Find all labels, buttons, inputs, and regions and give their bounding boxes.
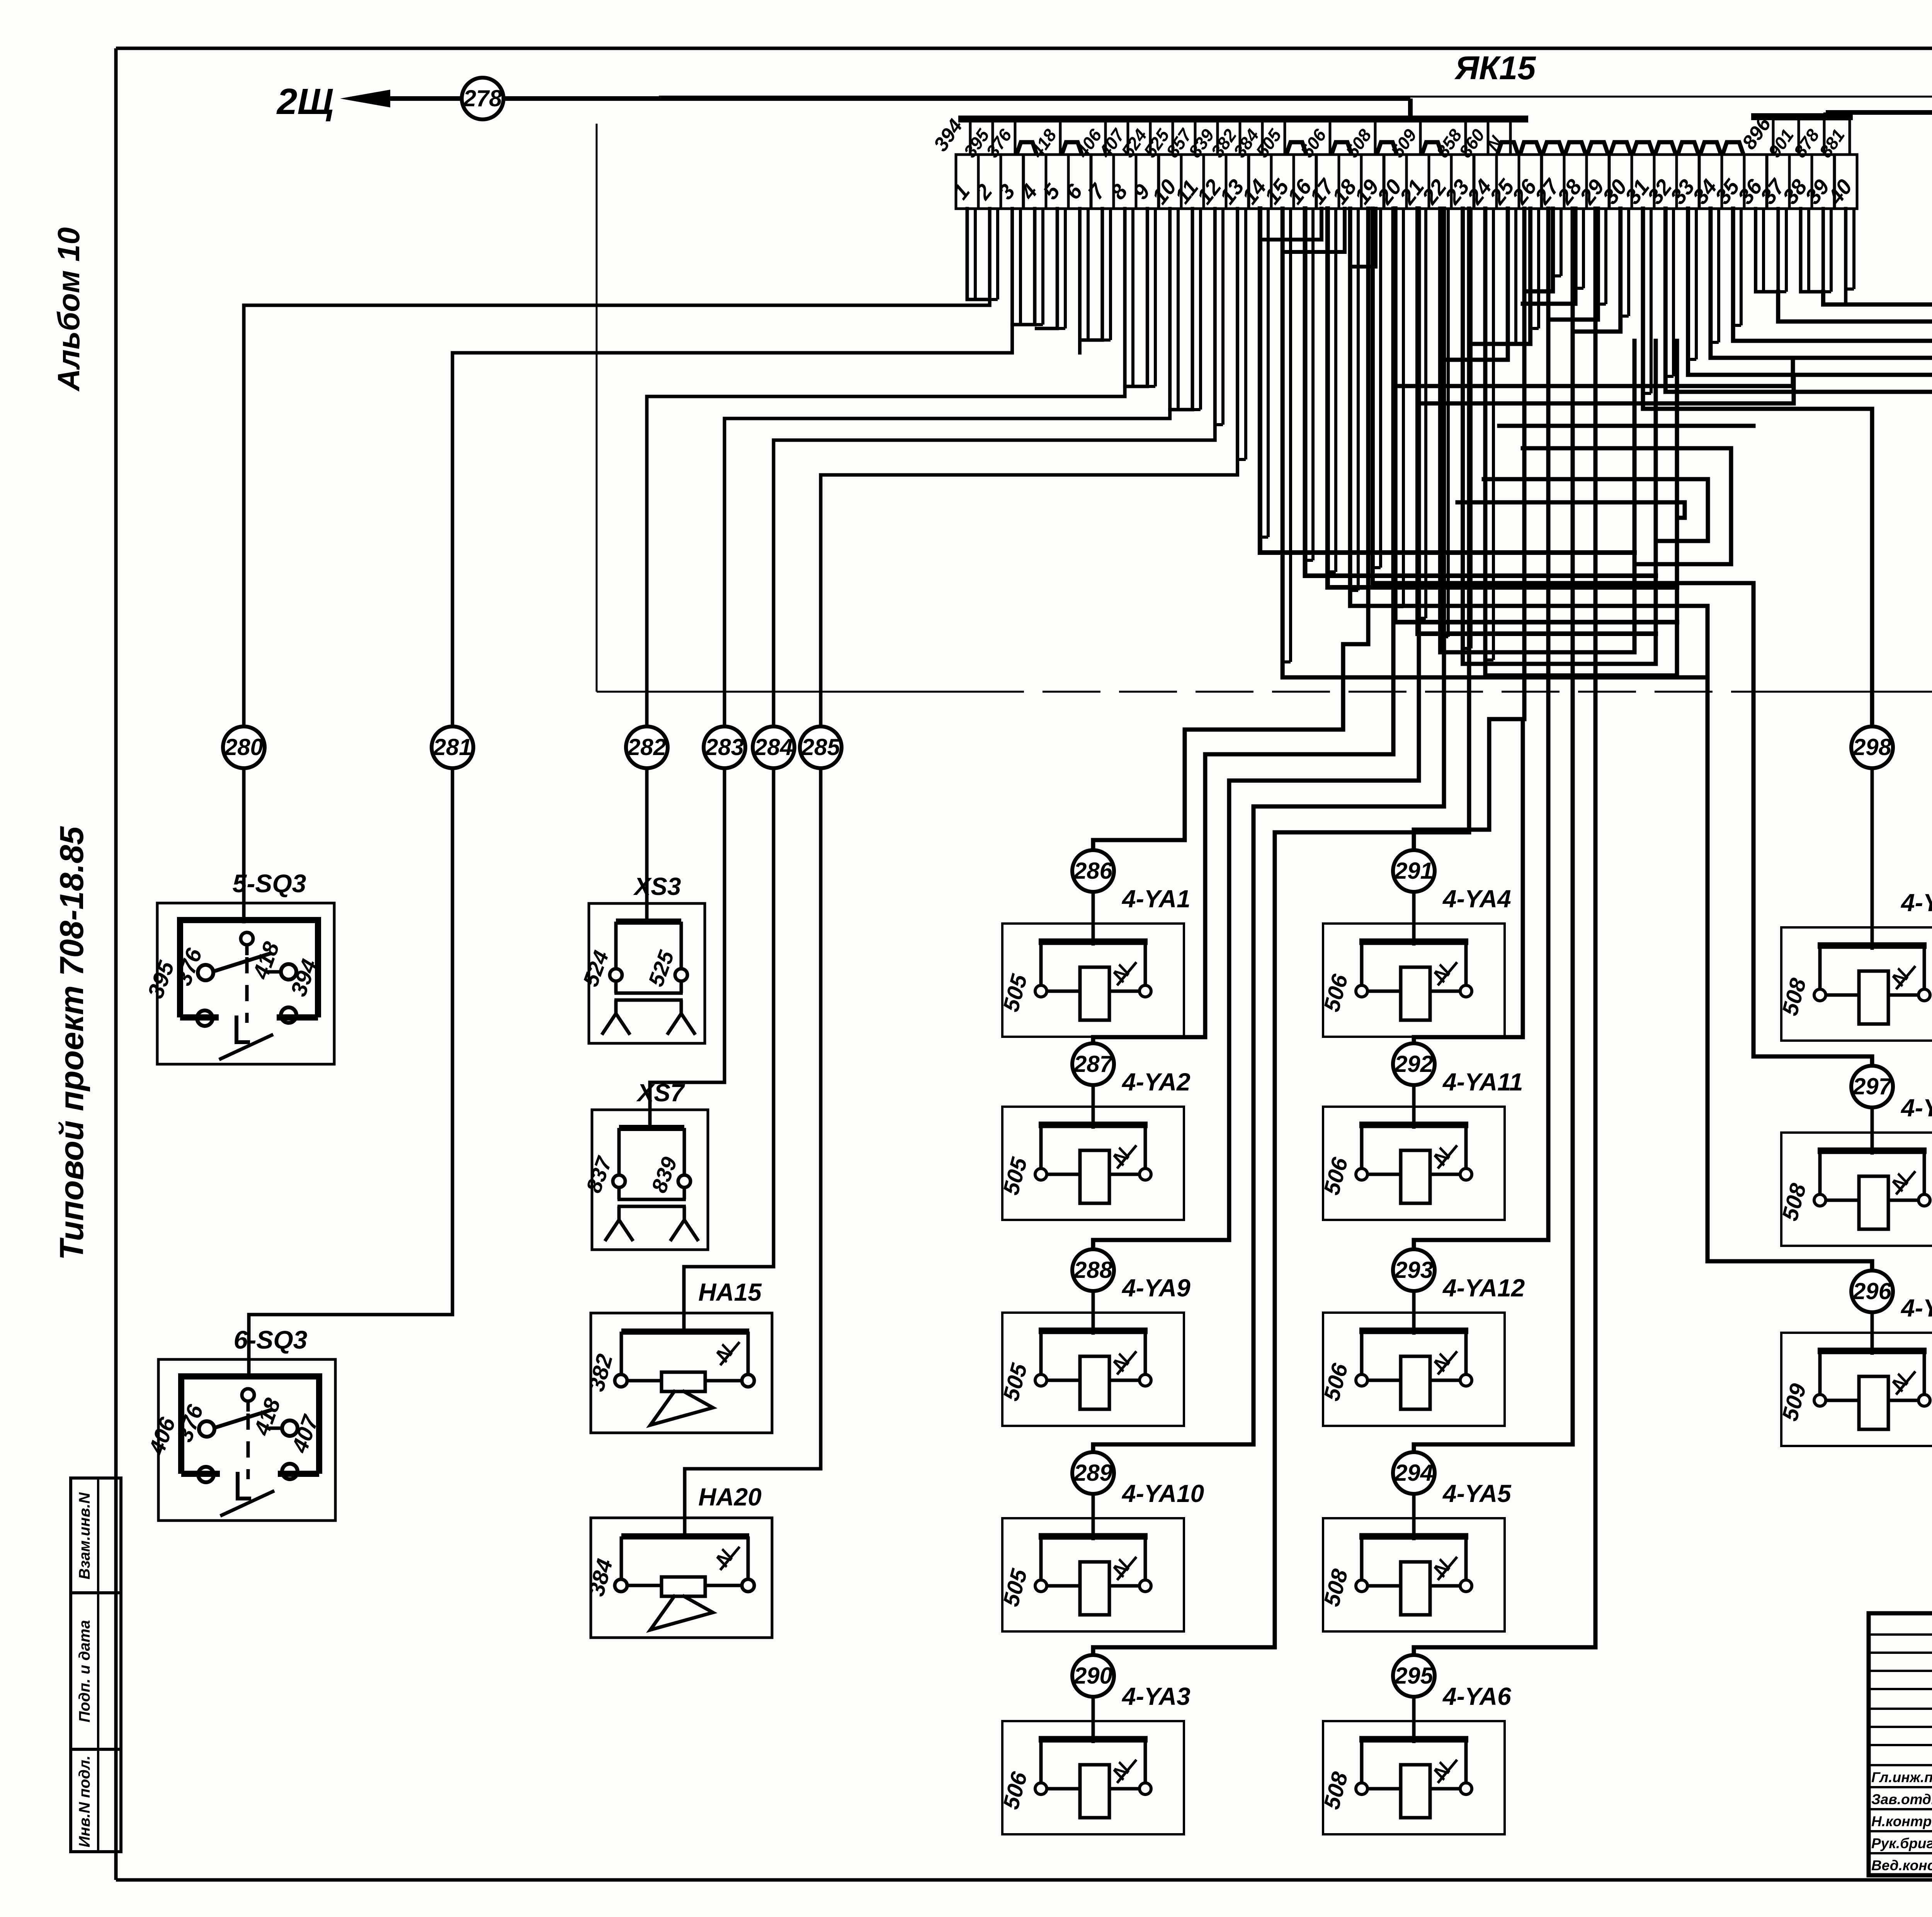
solenoid valve 4-YA4 — [1319, 924, 1505, 1037]
cable marker circle 292 — [1393, 1043, 1435, 1085]
svg-text:294: 294 — [1394, 1460, 1433, 1486]
bottom-left margin stamp tables — [71, 1478, 121, 1852]
cable marker circle 289 — [1072, 1452, 1114, 1494]
cable marker circle 286 — [1072, 850, 1114, 892]
svg-text:Типовой проект 708-18.85: Типовой проект 708-18.85 — [53, 826, 90, 1260]
svg-text:4-YA3: 4-YA3 — [1121, 1682, 1190, 1710]
svg-text:281: 281 — [433, 734, 472, 760]
solenoid valve 4-YA14 — [1777, 1133, 1932, 1246]
wire cable 293 — [1414, 209, 1548, 1249]
limit switch 5-SQ3 — [157, 903, 334, 1064]
svg-text:4-YA5: 4-YA5 — [1442, 1480, 1512, 1507]
wire 280 to 5-SQ3 — [242, 768, 246, 922]
wire t29 merge — [1548, 209, 1598, 320]
wire cable 292 — [1414, 719, 1523, 1043]
cable marker circle 282 — [626, 726, 668, 768]
wire t14 merge — [1260, 209, 1634, 553]
svg-text:287: 287 — [1073, 1051, 1114, 1077]
wire cable 295 — [1414, 209, 1595, 1655]
solenoid valve 4-YA9 — [998, 1313, 1184, 1426]
svg-text:298: 298 — [1852, 734, 1892, 760]
svg-text:XS3: XS3 — [633, 873, 681, 900]
solenoid valve 4-YA5 — [1319, 1518, 1505, 1631]
solenoid valve 4-YA12 — [1319, 1313, 1505, 1426]
solenoid valve 4-YA11 — [1319, 1107, 1505, 1220]
svg-text:4-YA4: 4-YA4 — [1442, 885, 1511, 913]
wire t15 merge (deep bottom) — [1282, 209, 1708, 677]
cable marker circle 278 — [462, 78, 503, 119]
cable marker circle 290 — [1072, 1655, 1114, 1697]
wire number boxes above terminals — [970, 119, 1850, 155]
wire cable 296 to 4-YA13 — [1350, 209, 1872, 1271]
wire to cable 281 — [452, 325, 1012, 726]
cable marker circle 287 — [1072, 1043, 1114, 1085]
svg-text:285: 285 — [801, 734, 841, 760]
wire N bus long horizontal 1 — [1399, 358, 1793, 386]
wire second drops under terminals — [967, 209, 1854, 662]
svg-text:Зав.отд.: Зав.отд. — [1871, 1791, 1932, 1807]
solenoid valve 4-YA3 — [998, 1721, 1184, 1834]
signature rows — [1871, 1764, 1932, 1874]
horn HA20 — [583, 1518, 772, 1638]
cable marker circle 294 — [1393, 1452, 1435, 1494]
net 2Щ arrow and label — [276, 81, 462, 122]
horn HA15 — [583, 1313, 772, 1433]
cable marker circle 280 — [223, 726, 265, 768]
wire t38,t39 join to cable 304 — [1799, 209, 1803, 292]
cable marker circle 293 — [1393, 1249, 1435, 1291]
wire t13 to cable 285 — [821, 209, 1238, 726]
wire 296 into 4-YA13 — [1871, 1312, 1874, 1355]
cable marker circle 284 — [753, 726, 794, 768]
thin line ЯК15 — [659, 96, 1932, 98]
svg-text:Вед.конст.: Вед.конст. — [1871, 1857, 1932, 1873]
connector XS3 — [589, 903, 705, 1043]
solenoid valve 4-YA2 — [998, 1107, 1184, 1220]
terminal block ЯК15 cap (terminals 1-25) — [958, 116, 1528, 122]
wire cable 301 to 4-YA16 — [1711, 209, 1932, 726]
wire t21 merge — [1418, 209, 1656, 634]
solenoid valve 4-YA7 — [1777, 927, 1932, 1041]
svg-text:288: 288 — [1073, 1257, 1113, 1283]
jumper bumps over terminals 25-35 — [1497, 142, 1743, 155]
wire t24 riser — [1485, 209, 1677, 675]
wire t36,t37 join to cable 303 — [1754, 209, 1757, 292]
wire t8,t9 to cable 282 — [1123, 209, 1127, 386]
wire ЯК15 main line right — [1826, 110, 1932, 115]
wire t16 merge — [1305, 209, 1656, 576]
wire 294 into 4-YA5 — [1412, 1494, 1416, 1540]
wire t30 merge — [1573, 209, 1621, 332]
svg-text:4-YA7: 4-YA7 — [1900, 889, 1932, 917]
svg-text:290: 290 — [1073, 1663, 1112, 1689]
svg-text:4-YA12: 4-YA12 — [1442, 1274, 1525, 1302]
terminal number row 1-40 — [956, 155, 1857, 209]
main title block — [1869, 1613, 1932, 1875]
wire cable 300 to 4-YA15 — [1688, 209, 1932, 726]
wire bundle step t18-t19 — [1350, 209, 1376, 267]
terminal block cap (terminals 36-39) — [1751, 113, 1853, 120]
wire 295 into 4-YA6 — [1412, 1697, 1416, 1743]
svg-text:Рук.бриг.: Рук.бриг. — [1871, 1835, 1932, 1851]
solenoid valve 4-YA6 — [1319, 1721, 1505, 1834]
wire 283 to XS7 — [650, 768, 724, 1128]
wire t6,t7 join — [1078, 209, 1082, 340]
svg-text:ЯК15: ЯК15 — [1454, 50, 1536, 87]
wire t3,t4,t5 join — [1010, 209, 1014, 325]
svg-text:2Щ: 2Щ — [276, 81, 334, 122]
wire 282 to XS3 — [645, 768, 649, 922]
wire cable 297 to 4-YA14 — [1372, 209, 1872, 1066]
wire cable 291 staircase — [1414, 209, 1524, 850]
svg-text:280: 280 — [224, 734, 263, 760]
svg-text:HA15: HA15 — [698, 1278, 762, 1306]
cable marker circle 291 — [1393, 850, 1435, 892]
cable marker circle 281 — [432, 726, 473, 768]
solenoid valve 4-YA13 — [1777, 1333, 1932, 1446]
svg-text:289: 289 — [1073, 1460, 1113, 1486]
svg-text:283: 283 — [705, 734, 744, 760]
wire cable 286 staircase — [1093, 209, 1368, 850]
cable marker circle 288 — [1072, 1249, 1114, 1291]
svg-text:293: 293 — [1394, 1257, 1433, 1283]
wire cable 299 to 4-YA8 — [1665, 209, 1932, 726]
wire 285 to HA20 — [685, 768, 821, 1536]
svg-text:6-SQ3: 6-SQ3 — [234, 1325, 308, 1354]
wire cable 288 — [1093, 209, 1419, 1249]
equipment boundary thin line bottom (dash-dot) — [597, 691, 966, 693]
wire t1,t2 to cable 280 — [966, 209, 969, 299]
svg-text:4-YA2: 4-YA2 — [1121, 1068, 1190, 1096]
wire 290 into 4-YA3 — [1092, 1697, 1095, 1743]
connector XS7 — [592, 1110, 708, 1250]
wire N bus long horizontal 2 — [1419, 375, 1794, 403]
svg-text:4-YA13: 4-YA13 — [1900, 1294, 1932, 1322]
svg-text:291: 291 — [1394, 858, 1433, 884]
wire t12 to cable 284 — [774, 209, 1215, 726]
wire t25 merge — [1444, 209, 1508, 360]
svg-text:4-YA1: 4-YA1 — [1121, 885, 1190, 913]
limit switch 6-SQ3 — [158, 1359, 335, 1521]
wire cable 290 — [1093, 209, 1469, 1655]
svg-text:Гл.инж.пр.: Гл.инж.пр. — [1871, 1769, 1932, 1785]
equipment boundary thin line left — [596, 124, 598, 692]
wire 298 into 4-YA7 — [1871, 768, 1874, 950]
wire t23 riser — [1463, 209, 1656, 664]
svg-text:282: 282 — [627, 734, 666, 760]
wire 297 into 4-YA14 — [1871, 1107, 1874, 1155]
wire cable 298 to 4-YA7 — [1643, 209, 1872, 726]
svg-text:286: 286 — [1073, 858, 1113, 884]
wire 289 into 4-YA10 — [1092, 1494, 1095, 1540]
svg-text:284: 284 — [754, 734, 793, 760]
wire t22 riser to Y4 bus — [1440, 209, 1634, 652]
wire 287 into 4-YA2 — [1092, 1085, 1095, 1129]
svg-text:4-YA6: 4-YA6 — [1442, 1682, 1511, 1710]
solenoid valve 4-YA1 — [998, 924, 1184, 1037]
wire 292 into 4-YA11 — [1412, 1085, 1416, 1129]
wire bundle mid horizontals — [1499, 424, 1753, 428]
svg-text:XS7: XS7 — [636, 1079, 685, 1107]
svg-text:292: 292 — [1394, 1051, 1433, 1077]
wire cable 289 — [1093, 209, 1444, 1452]
wire 284 to HA15 — [684, 768, 774, 1332]
wire t27 merge — [1524, 209, 1553, 291]
svg-text:295: 295 — [1394, 1663, 1434, 1689]
svg-text:4-YA14: 4-YA14 — [1900, 1094, 1932, 1122]
cable marker circle 295 — [1393, 1655, 1435, 1697]
svg-text:4-YA11: 4-YA11 — [1442, 1068, 1523, 1096]
svg-text:296: 296 — [1852, 1278, 1892, 1304]
svg-text:Альбом 10: Альбом 10 — [51, 227, 86, 392]
wire cable 302 to Y4 — [1733, 209, 1932, 726]
svg-text:5-SQ3: 5-SQ3 — [233, 869, 306, 898]
svg-text:Инв.N подл.: Инв.N подл. — [76, 1755, 93, 1847]
solenoid valve 4-YA10 — [998, 1518, 1184, 1631]
wire t26 merge — [1469, 209, 1531, 344]
wire cable 294 — [1414, 209, 1573, 1452]
svg-text:Н.контр.: Н.контр. — [1871, 1813, 1932, 1829]
svg-text:4-YA9: 4-YA9 — [1121, 1274, 1190, 1302]
wire t10,t11 to cable 283 — [1168, 209, 1172, 410]
wire step down to terminal cap — [1408, 99, 1413, 118]
wire t28 merge — [1523, 209, 1575, 304]
wire riser cap to line — [1823, 112, 1828, 117]
svg-text:297: 297 — [1852, 1073, 1893, 1099]
wire cable 287 — [1093, 209, 1393, 1043]
wire 293 into 4-YA12 — [1412, 1291, 1416, 1335]
cable marker circle 283 — [704, 726, 745, 768]
svg-text:Взам.инв.N: Взам.инв.N — [76, 1492, 93, 1579]
wire t40 stub — [1844, 209, 1847, 304]
svg-text:HA20: HA20 — [698, 1483, 762, 1511]
svg-text:278: 278 — [463, 85, 502, 111]
wire 291 into 4-YA4 — [1412, 892, 1416, 946]
svg-text:4-YA10: 4-YA10 — [1121, 1480, 1204, 1507]
wire bundle extra steps upper middle — [1260, 209, 1321, 240]
svg-text:Подп. и дата: Подп. и дата — [76, 1620, 93, 1723]
wire t17 merge — [1328, 209, 1677, 587]
wire 288 into 4-YA9 — [1092, 1291, 1095, 1335]
wire 286 into 4-YA1 — [1092, 892, 1095, 946]
cable marker circle 285 — [800, 726, 842, 768]
wire t20 merge — [1395, 209, 1677, 622]
wire ЯК15 main line left — [503, 96, 1410, 101]
wire 281 to 6-SQ3 — [249, 768, 452, 1376]
